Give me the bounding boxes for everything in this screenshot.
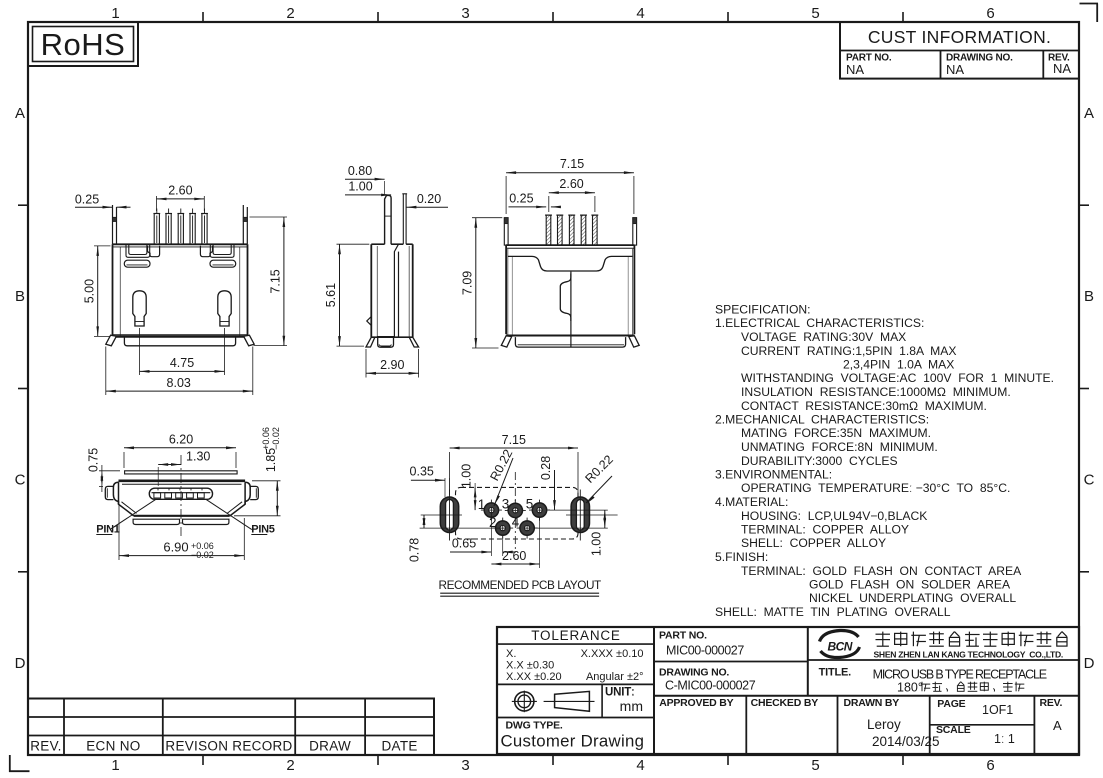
svg-text:1: 1 [111, 757, 119, 774]
svg-text:GOLD FLASH ON SOLDER AREA: GOLD FLASH ON SOLDER AREA [809, 578, 1011, 592]
svg-text:2014/03/25: 2014/03/25 [872, 734, 940, 749]
svg-text:RECOMMENDED PCB LAYOUT: RECOMMENDED PCB LAYOUT [439, 578, 602, 592]
svg-text:3: 3 [461, 757, 469, 774]
svg-text:DRAWN BY: DRAWN BY [844, 697, 900, 709]
svg-text:NICKEL UNDERPLATING OVERALL: NICKEL UNDERPLATING OVERALL [809, 591, 1016, 605]
svg-text:0.35: 0.35 [410, 465, 434, 479]
svg-text:ECN NO: ECN NO [86, 739, 140, 754]
svg-text:1ː 1: 1ː 1 [994, 732, 1015, 746]
svg-text:3: 3 [461, 5, 469, 22]
svg-text:−0.02: −0.02 [271, 427, 281, 450]
svg-text:UNITː: UNITː [605, 687, 635, 699]
svg-text:WITHSTANDING VOLTAGE:AC 100V: WITHSTANDING VOLTAGE:AC 100V FOR 1 MINUT… [741, 371, 1054, 385]
svg-text:D: D [15, 655, 26, 672]
svg-text:0.25: 0.25 [509, 192, 533, 206]
svg-text:2: 2 [286, 757, 294, 774]
svg-text:4.75: 4.75 [170, 356, 194, 370]
svg-text:6: 6 [986, 5, 994, 22]
svg-text:CHECKED BY: CHECKED BY [751, 697, 819, 709]
svg-text:SCALE: SCALE [936, 724, 971, 736]
svg-text:BCN: BCN [827, 640, 852, 654]
svg-text:4: 4 [636, 5, 644, 22]
svg-text:Leroy: Leroy [867, 717, 901, 732]
svg-text:A: A [1053, 718, 1062, 733]
svg-text:Customer Drawing: Customer Drawing [501, 732, 645, 751]
svg-text:NA: NA [846, 62, 864, 77]
svg-text:3: 3 [502, 497, 510, 512]
svg-text:D: D [1084, 655, 1095, 672]
svg-text:7.15: 7.15 [269, 269, 283, 293]
svg-text:0.65: 0.65 [452, 537, 476, 551]
svg-text:A: A [1084, 105, 1094, 122]
svg-text:5.00: 5.00 [82, 279, 96, 303]
svg-text:1OF1: 1OF1 [982, 703, 1013, 717]
svg-text:8.03: 8.03 [167, 376, 191, 390]
svg-text:5: 5 [811, 757, 819, 774]
svg-text:APPROVED BY: APPROVED BY [659, 697, 733, 709]
svg-text:INSULATION RESISTANCE:1000MΩ: INSULATION RESISTANCE:1000MΩ MINIMUM. [741, 385, 1011, 399]
svg-text:0.80: 0.80 [348, 164, 372, 178]
svg-text:1.30: 1.30 [186, 450, 210, 464]
svg-text:0.28: 0.28 [539, 456, 553, 480]
svg-text:6.90: 6.90 [163, 540, 188, 555]
svg-text:0.25: 0.25 [75, 193, 99, 207]
svg-text:2,3,4PIN 1.0A MAX: 2,3,4PIN 1.0A MAX [843, 358, 954, 372]
svg-text:PART NO.: PART NO. [659, 630, 707, 642]
svg-text:PIN5: PIN5 [251, 524, 274, 536]
svg-text:MATING FORCE:35N MAXIMUM.: MATING FORCE:35N MAXIMUM. [741, 426, 931, 440]
svg-text:C: C [1084, 472, 1095, 489]
svg-text:A: A [15, 105, 25, 122]
svg-text:MIC00-000027: MIC00-000027 [666, 644, 744, 658]
svg-text:OPERATING TEMPERATUREː −30°C: OPERATING TEMPERATUREː −30°C TO 85°C. [741, 481, 1010, 495]
svg-text:C: C [15, 472, 26, 489]
svg-text:DATE: DATE [381, 739, 417, 754]
svg-text:4.MATERIAL:: 4.MATERIAL: [715, 495, 788, 509]
svg-text:REV.: REV. [1040, 697, 1063, 709]
svg-text:REV.: REV. [30, 739, 61, 754]
svg-text:7.09: 7.09 [460, 271, 474, 295]
svg-text:3.ENVIRONMENTAL:: 3.ENVIRONMENTAL: [715, 468, 832, 482]
svg-text:NA: NA [1053, 61, 1071, 76]
svg-text:5.61: 5.61 [324, 283, 338, 307]
svg-text:1.00: 1.00 [348, 180, 372, 194]
svg-text:7.15: 7.15 [560, 157, 584, 171]
svg-text:0.20: 0.20 [417, 192, 441, 206]
svg-text:SHELL: COPPER ALLOY: SHELL: COPPER ALLOY [741, 536, 886, 550]
svg-text:CUST INFORMATION.: CUST INFORMATION. [868, 27, 1051, 47]
svg-text:mm: mm [620, 698, 643, 714]
svg-text:X.XXX ±0.10: X.XXX ±0.10 [581, 648, 644, 660]
svg-text:B: B [1084, 288, 1094, 305]
svg-text:HOUSING: LCP,UL94V−0,BLACK: HOUSING: LCP,UL94V−0,BLACK [741, 509, 927, 523]
svg-text:Angular ±2°: Angular ±2° [586, 671, 644, 683]
svg-text:2.90: 2.90 [380, 358, 404, 372]
svg-text:TOLERANCE: TOLERANCE [531, 628, 620, 643]
svg-text:2.60: 2.60 [502, 549, 526, 563]
svg-text:1: 1 [111, 5, 119, 22]
svg-text:1: 1 [478, 497, 486, 512]
svg-text:TITLE.: TITLE. [819, 667, 852, 679]
svg-text:CONTACT RESISTANCE:30mΩ MAXI: CONTACT RESISTANCE:30mΩ MAXIMUM. [741, 399, 987, 413]
svg-text:4: 4 [636, 757, 644, 774]
svg-text:5: 5 [811, 5, 819, 22]
svg-text:4: 4 [512, 515, 520, 530]
svg-text:DRAWING NO.: DRAWING NO. [659, 667, 729, 679]
svg-text:5: 5 [526, 497, 534, 512]
svg-text:X.XX ±0.20: X.XX ±0.20 [506, 671, 562, 683]
svg-text:6: 6 [986, 757, 994, 774]
svg-text:X.: X. [506, 648, 516, 660]
svg-text:RoHS: RoHS [41, 27, 126, 62]
svg-text:REVISON RECORD: REVISON RECORD [165, 739, 292, 754]
svg-text:2.MECHANICAL CHARACTERISTICS:: 2.MECHANICAL CHARACTERISTICS: [715, 413, 929, 427]
svg-text:2.60: 2.60 [559, 177, 583, 191]
svg-text:180°: 180° [897, 681, 923, 695]
svg-text:TERMINAL: GOLD FLASH ON CO: TERMINAL: GOLD FLASH ON CONTACT AREA [741, 564, 1022, 578]
svg-text:CURRENT RATING:1,5PIN 1.8A: CURRENT RATING:1,5PIN 1.8A MAX [741, 344, 956, 358]
svg-text:DURABILITY:3000 CYCLES: DURABILITY:3000 CYCLES [741, 454, 898, 468]
svg-text:X.X ±0.30: X.X ±0.30 [506, 660, 554, 672]
svg-text:DRAW: DRAW [309, 739, 351, 754]
svg-text:1.ELECTRICAL CHARACTERISTICS:: 1.ELECTRICAL CHARACTERISTICS: [715, 316, 924, 330]
svg-text:MICRO USB B TYPE RECEPTACLE: MICRO USB B TYPE RECEPTACLE [873, 668, 1047, 682]
svg-text:1.00: 1.00 [589, 532, 603, 556]
svg-text:0.75: 0.75 [87, 448, 101, 472]
svg-text:DWG TYPE.: DWG TYPE. [506, 720, 563, 732]
svg-text:2: 2 [286, 5, 294, 22]
svg-text:2.60: 2.60 [168, 184, 192, 198]
svg-text:SHELL: MATTE TIN PLATING O: SHELL: MATTE TIN PLATING OVERALL [715, 605, 951, 619]
svg-text:+0.06: +0.06 [261, 427, 271, 450]
svg-text:7.15: 7.15 [502, 433, 526, 447]
svg-text:PAGE: PAGE [937, 698, 965, 710]
svg-text:PIN1: PIN1 [96, 524, 119, 536]
svg-text:TERMINAL: COPPER ALLOY: TERMINAL: COPPER ALLOY [741, 523, 909, 537]
svg-text:SPECIFICATION:: SPECIFICATION: [715, 303, 811, 317]
svg-text:UNMATING FORCE:8N MINIMUM.: UNMATING FORCE:8N MINIMUM. [741, 440, 938, 454]
svg-text:NA: NA [946, 62, 964, 77]
svg-text:−0.02: −0.02 [191, 550, 214, 560]
svg-text:VOLTAGE RATING:30V MAX: VOLTAGE RATING:30V MAX [741, 330, 906, 344]
svg-text:SHEN ZHEN LAN KANG TECHNOLOGY: SHEN ZHEN LAN KANG TECHNOLOGY CO.,LTD. [874, 650, 1063, 660]
svg-text:C-MIC00-000027: C-MIC00-000027 [665, 679, 756, 693]
svg-text:6.20: 6.20 [169, 433, 193, 447]
svg-text:1.00: 1.00 [460, 464, 474, 488]
svg-text:1.85: 1.85 [264, 448, 278, 472]
svg-text:0.78: 0.78 [407, 538, 421, 562]
svg-text:B: B [15, 288, 25, 305]
svg-text:5.FINISH:: 5.FINISH: [715, 550, 768, 564]
